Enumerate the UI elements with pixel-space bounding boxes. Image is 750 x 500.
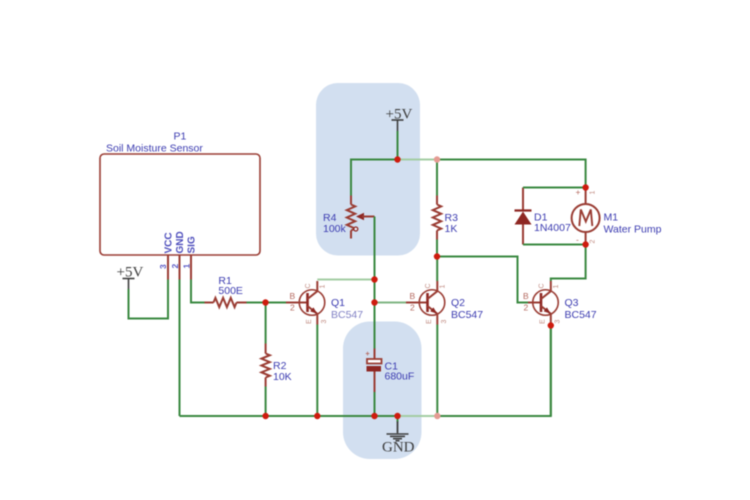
diode D1 1N4007: [515, 188, 571, 245]
wire D1 bottom to motor bottom: [523, 244, 586, 246]
svg-text:1: 1: [320, 285, 327, 289]
junction at rail Q2 emitter (faded): [434, 413, 440, 419]
svg-text:M1: M1: [604, 212, 619, 224]
pin 3 (VCC) of P1: [158, 255, 168, 280]
svg-text:1: 1: [553, 285, 560, 289]
svg-text:+: +: [576, 187, 581, 197]
svg-text:BC547: BC547: [565, 309, 597, 321]
wire R3 node to motor branch: [437, 160, 586, 188]
svg-text:B: B: [523, 291, 529, 301]
svg-text:100k: 100k: [323, 223, 347, 235]
wire +5V left to VCC pin: [129, 280, 169, 319]
svg-text:B: B: [410, 291, 416, 301]
svg-text:Water Pump: Water Pump: [604, 224, 662, 236]
svg-text:BC547: BC547: [451, 309, 483, 321]
svg-text:1: 1: [590, 191, 597, 195]
svg-text:C: C: [305, 283, 312, 288]
svg-text:P1: P1: [174, 131, 187, 143]
wire Q3 collector to motor bottom: [551, 245, 586, 282]
svg-text:E: E: [426, 319, 433, 324]
junction at motor bottom: [582, 241, 588, 247]
junction at rail GND: [394, 413, 400, 419]
wire C1 to ground rail: [374, 392, 376, 416]
wire node to Q2 base: [375, 302, 407, 304]
svg-text:2: 2: [170, 264, 180, 269]
junction at +5V top: [394, 156, 400, 162]
svg-text:C: C: [539, 283, 546, 288]
capacitor C1 680uF: [366, 349, 415, 393]
wire Q3 emitter to ground rail: [550, 326, 552, 417]
svg-text:3: 3: [321, 320, 328, 324]
svg-text:680uF: 680uF: [385, 371, 415, 383]
svg-text:E: E: [540, 319, 547, 324]
transistor Q2 BC547: [406, 281, 483, 325]
svg-text:B: B: [290, 291, 296, 301]
svg-text:3: 3: [441, 320, 448, 324]
svg-text:SIG: SIG: [187, 236, 198, 253]
wire node to Q2 collector: [436, 257, 438, 282]
wire R4 wiper down to C1/Q2 node: [374, 217, 376, 349]
wire junction down to R2: [265, 303, 267, 344]
motor M1 Water Pump: [572, 187, 662, 245]
svg-text:1K: 1K: [445, 223, 458, 235]
wire R1 to junction: [247, 302, 266, 304]
wire node to Q3 base: [437, 257, 528, 303]
junction at Q1 collector node: [371, 276, 377, 282]
svg-text:GND: GND: [382, 440, 415, 456]
svg-text:10K: 10K: [273, 371, 292, 383]
svg-text:Soil Moisture Sensor: Soil Moisture Sensor: [106, 143, 203, 155]
svg-text:500E: 500E: [218, 285, 243, 297]
transistor Q3 BC547: [523, 281, 597, 326]
wire Q1 emitter to ground rail: [316, 325, 318, 417]
resistor R3 1K: [433, 160, 458, 240]
svg-text:2: 2: [410, 303, 415, 313]
junction at rail R2: [262, 413, 268, 419]
wire +5V node right to R3 (faded): [398, 159, 438, 161]
wire motor top to D1: [523, 187, 586, 189]
svg-text:3: 3: [158, 264, 168, 269]
power +5V (left): [117, 265, 144, 290]
svg-text:Q2: Q2: [451, 297, 465, 309]
connector P1 Soil Moisture Sensor: [100, 131, 260, 256]
resistor R1 500E: [205, 275, 247, 307]
svg-text:1: 1: [440, 285, 447, 289]
wire ground rail: [180, 326, 551, 417]
svg-text:1: 1: [182, 264, 192, 269]
wire junction to Q1 base: [266, 302, 287, 304]
wire Q2 emitter to ground rail: [436, 325, 438, 417]
pin 2 (GND) of P1: [170, 255, 180, 280]
svg-text:2: 2: [590, 240, 597, 244]
svg-text:VCC: VCC: [164, 232, 175, 253]
junction at Q2 base node: [371, 299, 377, 305]
svg-text:Q3: Q3: [565, 297, 579, 309]
junction at rail C1: [371, 413, 377, 419]
power +5V (top): [386, 107, 413, 132]
wire R3 bottom to node: [436, 240, 438, 257]
junction at R3 bottom: [434, 253, 440, 259]
junction at R1/R2/Q1 base: [262, 299, 268, 305]
wire GND pin down to ground rail: [179, 280, 181, 417]
junction at rail Q1 emitter: [314, 413, 320, 419]
svg-text:E: E: [306, 319, 313, 324]
svg-text:3: 3: [555, 320, 562, 324]
svg-text:2: 2: [524, 303, 529, 313]
pin 1 (SIG) of P1: [182, 255, 192, 280]
wire R2 to ground rail: [265, 387, 267, 417]
svg-text:-: -: [576, 235, 579, 245]
svg-text:Q1: Q1: [331, 297, 345, 309]
svg-text:1N4007: 1N4007: [534, 222, 571, 234]
potentiometer R4 100k: [323, 196, 375, 239]
svg-text:+: +: [366, 351, 370, 358]
wire rail faded segment: [399, 415, 436, 417]
svg-text:GND: GND: [175, 231, 186, 253]
junction at Q3 emitter: [548, 322, 554, 328]
resistor R2 10K: [261, 344, 291, 387]
wire +5V node left to R4: [351, 160, 398, 196]
svg-text:2: 2: [290, 303, 295, 313]
wire SIG pin to R1: [191, 280, 205, 303]
junction at R3 top (faded): [434, 156, 440, 162]
svg-text:C: C: [425, 283, 432, 288]
svg-text:BC547: BC547: [331, 309, 363, 321]
wire Q1 collector to node: [317, 279, 374, 281]
junction at motor top: [582, 184, 588, 190]
transistor Q1 BC547: [286, 281, 363, 325]
wire +5V top to junction: [397, 131, 399, 160]
ground GND: [382, 416, 415, 456]
